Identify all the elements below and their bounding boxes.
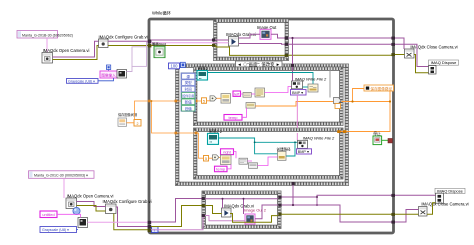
concat strings icon F1	[255, 88, 265, 97]
IMAQdx Close Camera.vi 2 icon	[419, 207, 428, 217]
wire junction	[254, 141, 256, 143]
svg-text:类型: 类型	[185, 80, 193, 85]
format string icon F2	[221, 155, 232, 165]
svg-text:Image Out 2: Image Out 2	[244, 207, 267, 212]
svg-text:Manta_G-201C-30 (000205003) ▾: Manta_G-201C-30 (000205003) ▾	[34, 174, 88, 178]
wire junction	[351, 100, 353, 102]
wire: purple image	[243, 199, 245, 214]
wire junction	[392, 53, 395, 56]
wire: olive error/session	[77, 206, 106, 212]
IMAQ Dispose 1 label	[429, 60, 459, 65]
camera name constant 1	[17, 31, 73, 39]
IMAQdx Configure Grab.vi 1 icon	[99, 39, 109, 48]
tunnel	[391, 194, 395, 197]
tunnel	[195, 100, 198, 103]
olive wires close1/dispose1	[395, 55, 429, 73]
flat sequence F1	[194, 67, 344, 126]
tunnel	[202, 214, 205, 217]
element	[343, 130, 346, 133]
camera name constant 2	[29, 171, 95, 179]
orange wire from interval constant into loop	[135, 101, 202, 120]
wire create1 to loop pink	[132, 47, 147, 67]
wire: olive error/session	[230, 214, 278, 223]
IMAQdx Open Camera.vi 1 icon	[42, 53, 53, 64]
wire to close1 purple	[395, 38, 404, 49]
wire: olive error/session	[288, 54, 393, 56]
flat sequence F2	[194, 128, 344, 179]
wire: pink session	[242, 108, 247, 117]
image wire drop into event structure	[292, 38, 294, 81]
wire grayscale to create1	[98, 78, 114, 81]
svg-text:Manta_G-201B-30 (696205062): Manta_G-201B-30 (696205062)	[22, 33, 73, 37]
svg-text:BMP ▾: BMP ▾	[298, 150, 309, 154]
tunnels on while left border bottom	[148, 221, 152, 224]
wire to dispose2 purple	[395, 194, 436, 196]
wire junction	[151, 100, 153, 102]
tunnel	[285, 43, 288, 46]
tunnel	[195, 132, 198, 135]
build path 2 icon	[278, 151, 287, 160]
100 constant	[169, 63, 180, 69]
svg-text:创建路径: 创建路径	[277, 147, 291, 152]
convert triangle F2	[213, 155, 220, 160]
tunnel	[148, 44, 152, 48]
wire config1 to loop olive	[108, 45, 150, 47]
wire: olive error/session	[216, 46, 286, 56]
wire: olive error/session	[395, 203, 436, 215]
svg-text:保存图像路径: 保存图像路径	[371, 86, 393, 91]
wire: purple image	[288, 43, 393, 45]
svg-text:▪▪: ▪▪	[199, 76, 201, 80]
wire junction	[392, 194, 395, 197]
wire 100 to timeout	[180, 65, 181, 67]
concat icon F1	[243, 93, 251, 98]
svg-text:IMAQdx Open Camera.vi: IMAQdx Open Camera.vi	[67, 193, 114, 198]
small icon F2b	[249, 163, 258, 169]
junction dots on right rails	[285, 37, 287, 39]
wire: teal path	[286, 142, 295, 156]
svg-text:IMAQdx Configure Grab.vi: IMAQdx Configure Grab.vi	[102, 199, 151, 204]
wire: olive error/session	[205, 206, 222, 214]
image name constant 图像输入	[100, 71, 117, 78]
IMAQdx Configure Grab.vi 2 icon	[106, 204, 117, 214]
svg-text:停止: 停止	[373, 131, 381, 136]
svg-text:right: right	[223, 150, 232, 155]
wire: pink session	[147, 43, 151, 47]
wire: pink session	[214, 42, 229, 44]
wire: pink session	[205, 216, 245, 221]
wire: teal path	[255, 141, 298, 143]
tunnel	[212, 44, 215, 47]
svg-text:保存图像间隔: 保存图像间隔	[118, 112, 138, 117]
wire: olive error/session	[114, 214, 148, 230]
wire junction	[316, 204, 318, 206]
local variable 画面2 2 icon	[208, 133, 219, 144]
IMAQdx Grab.vi 1 icon	[229, 37, 239, 47]
wire junction	[292, 204, 294, 206]
wire: orange numeric	[342, 91, 391, 102]
svg-text:100: 100	[171, 64, 179, 69]
teal wire F2	[219, 138, 278, 154]
wire untitled to create2	[57, 214, 81, 217]
wire junction	[392, 221, 395, 224]
loop conditional terminal	[388, 139, 392, 143]
svg-text:图像输入: 图像输入	[101, 72, 116, 77]
while loop right border tunnels	[391, 37, 395, 40]
svg-text:控件引用: 控件引用	[182, 93, 194, 98]
wire: pink session	[88, 221, 149, 223]
tunnel	[391, 53, 395, 56]
svg-text:untitled: untitled	[42, 213, 54, 217]
wire to dispose1 purple	[395, 44, 429, 66]
tunnel	[391, 43, 395, 46]
wire: purple image	[222, 199, 224, 208]
untitled constant	[40, 211, 57, 218]
svg-text:旧值: 旧值	[185, 106, 193, 111]
flat sequence S2 (grab frame bottom)	[202, 191, 281, 229]
temp string constant F1	[224, 115, 242, 121]
wire: orange numeric	[338, 102, 390, 132]
wire junction	[243, 198, 245, 200]
tunnel	[278, 213, 281, 216]
pink wires F2	[234, 152, 278, 166]
event structure E	[176, 64, 349, 186]
tunnel	[391, 221, 395, 224]
BMP ring F1	[291, 90, 307, 96]
S1 wires	[214, 39, 229, 41]
svg-text:BMP ▾: BMP ▾	[292, 91, 303, 95]
concat icon F2	[239, 158, 248, 164]
wire config1 to loop purple	[108, 40, 150, 42]
blue sphere icon	[73, 207, 80, 214]
wire junction	[291, 37, 293, 39]
flat sequence S1 (grab frame top)	[214, 19, 289, 61]
while loop	[149, 19, 394, 233]
wire: olive error/session	[151, 206, 202, 227]
wires close2	[395, 210, 419, 223]
convert triangle F1	[210, 96, 217, 101]
S2 left tunnels	[202, 197, 205, 200]
tunnel	[148, 229, 152, 232]
wire: olive error/session	[282, 213, 393, 215]
build path 1 icon	[308, 84, 318, 92]
pink wires F1	[241, 87, 292, 95]
rails S2 to right border	[282, 195, 393, 197]
tunnel	[175, 100, 178, 103]
wire junction	[222, 198, 224, 200]
lower string icon F1	[246, 103, 255, 109]
element	[337, 130, 340, 133]
orange numeric 5 constant F2	[204, 156, 209, 162]
svg-text:temp: temp	[229, 115, 239, 120]
wire: teal path	[303, 86, 309, 88]
wire: gray	[329, 66, 331, 98]
svg-text:IMAQ Write File 2: IMAQ Write File 2	[303, 136, 335, 141]
orange wire chain F2	[209, 156, 221, 159]
IMAQdx Close Camera.vi 1 icon	[405, 49, 415, 58]
interval icon A	[118, 118, 127, 126]
svg-text:源: 源	[186, 74, 190, 79]
tunnel	[291, 64, 294, 67]
orange wire chain F1	[207, 98, 334, 106]
wire: purple image	[239, 34, 261, 38]
tunnel	[391, 213, 395, 216]
IMAQdx Open Camera.vi 2 icon	[66, 198, 77, 209]
wire: purple image	[271, 34, 286, 38]
S2 wires	[205, 198, 278, 200]
image type ring Grayscale (U8)	[67, 79, 99, 84]
IMAQ Create 1 icon	[117, 70, 127, 79]
error wire write1 to write2	[296, 95, 298, 140]
wire: pink session	[227, 165, 231, 169]
wire: olive error/session	[151, 45, 216, 47]
wire junction	[392, 43, 395, 46]
tunnel	[292, 182, 295, 185]
Image Out indicator icon	[260, 29, 271, 39]
local variable 画面2 icon	[197, 71, 208, 81]
wire junction	[316, 196, 318, 198]
svg-text:IMAQ Dispose: IMAQ Dispose	[437, 189, 464, 194]
wire: purple image	[255, 205, 278, 219]
merge/select icon right F1	[334, 98, 342, 109]
interval constant B	[134, 120, 141, 127]
S1 right tunnels	[285, 37, 288, 40]
svg-text:left: left	[234, 91, 240, 96]
svg-text:时间: 时间	[185, 87, 193, 92]
orange numeric 5 constant F1	[202, 98, 207, 104]
IMAQdx Grab.vi 2 icon	[222, 208, 232, 217]
tunnel	[148, 225, 152, 228]
wire junction	[294, 141, 296, 143]
wires config2 and create2 to loop	[116, 207, 148, 227]
wire open1 to config1 olive	[53, 46, 99, 60]
wire: purple image	[316, 197, 318, 205]
event timeout terminal	[181, 62, 186, 67]
orange branch to F2	[152, 101, 204, 158]
orange wires right	[353, 89, 365, 102]
svg-text:IMAQ Write File 2: IMAQ Write File 2	[295, 76, 327, 81]
wires open2 to config2	[77, 202, 106, 207]
wire open1 to config1 purple	[53, 41, 99, 57]
Image Out 2 indicator icon	[245, 214, 255, 224]
wire junction	[392, 37, 395, 40]
green timing icon	[151, 42, 166, 58]
tunnel	[202, 204, 205, 207]
BMP ring F2	[297, 149, 312, 154]
wire junction	[389, 100, 391, 102]
event data node	[181, 73, 196, 112]
IMAQ Create 2 icon	[78, 218, 88, 228]
rails S1 to right border	[288, 37, 393, 39]
tunnels on while left border top	[148, 40, 152, 44]
temp string constant F2	[215, 166, 228, 172]
svg-text:While循环: While循环	[152, 10, 171, 17]
wire stop to conditional	[382, 139, 388, 141]
tunnel	[278, 204, 281, 207]
wire junction	[392, 213, 395, 216]
image type ring Grayscale (U8) 2	[40, 227, 77, 233]
right string constant	[221, 149, 234, 155]
image wire from E bottom to S2 rail	[292, 183, 294, 205]
tunnel	[148, 100, 151, 103]
wire: purple image	[282, 205, 393, 222]
svg-text:Grayscale (U8) ▾: Grayscale (U8) ▾	[42, 228, 69, 232]
event selector label	[236, 61, 283, 68]
IMAQ Dispose 2 label	[435, 188, 465, 193]
format string icon F1	[221, 94, 231, 104]
IMAQ Write File 2 (F1) icon	[292, 81, 303, 89]
svg-text:新值: 新值	[185, 99, 193, 104]
tunnel	[285, 54, 288, 57]
wire: pink session	[151, 42, 214, 44]
S1 left tunnels	[212, 39, 215, 42]
tunnel	[175, 132, 178, 135]
left string constant	[233, 91, 241, 96]
S2 right tunnels	[278, 196, 281, 199]
svg-text:Grayscale (U8) ▾: Grayscale (U8) ▾	[68, 79, 95, 83]
wires to S2 left	[151, 199, 202, 223]
svg-text:2: 2	[137, 122, 139, 126]
wire: pink session	[151, 217, 205, 230]
wire A to B	[127, 122, 135, 124]
wire camera name 1 to open	[46, 38, 48, 53]
svg-text:▪▪: ▪▪	[210, 140, 212, 144]
small blue constant near create1	[107, 65, 111, 70]
path constant orange box	[364, 85, 394, 91]
wire grayscale2 to create2	[77, 229, 79, 231]
teal wire from 画面2	[208, 73, 314, 85]
IMAQ Dispose 2 icon	[436, 193, 444, 203]
svg-text:IMAQdx Close Camera.vi: IMAQdx Close Camera.vi	[421, 202, 468, 207]
rails into S1	[151, 39, 214, 41]
wire blue const down	[108, 70, 110, 72]
wire camera name 2 down	[63, 178, 65, 198]
svg-text:temp: temp	[216, 167, 226, 172]
svg-text:IMAQ Dispose: IMAQ Dispose	[431, 60, 458, 65]
loop iteration terminal	[152, 227, 159, 233]
wire: purple image	[239, 43, 286, 46]
IMAQ Write File 2 (F2) icon	[298, 140, 308, 148]
IMAQ Dispose 1 icon	[429, 66, 437, 75]
wire: pink session	[127, 66, 133, 71]
